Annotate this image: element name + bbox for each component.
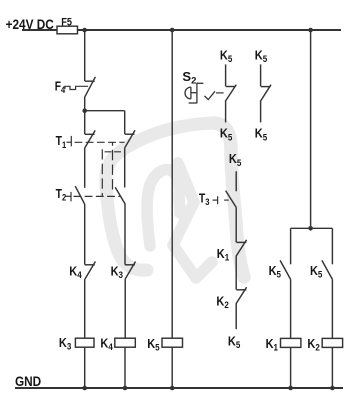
svg-text:+24V DC: +24V DC: [6, 17, 54, 32]
svg-text:F5: F5: [61, 17, 72, 29]
svg-text:GND: GND: [15, 374, 41, 389]
